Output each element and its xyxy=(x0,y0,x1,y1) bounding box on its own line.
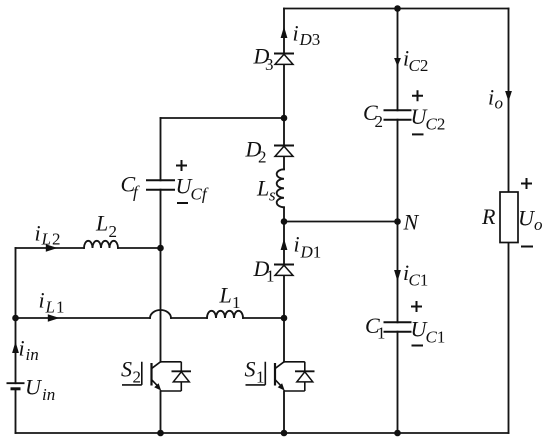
svg-text:i: i xyxy=(294,232,300,257)
svg-text:C1: C1 xyxy=(409,271,429,290)
svg-text:1: 1 xyxy=(266,267,275,286)
svg-text:L2: L2 xyxy=(41,230,61,249)
svg-text:2: 2 xyxy=(258,148,267,167)
svg-text:i: i xyxy=(488,85,494,110)
svg-text:o: o xyxy=(534,215,543,234)
svg-text:C2: C2 xyxy=(426,115,446,134)
svg-text:S: S xyxy=(121,357,132,382)
svg-text:in: in xyxy=(42,385,55,404)
svg-text:L: L xyxy=(256,176,269,201)
svg-text:S: S xyxy=(245,357,256,382)
svg-text:3: 3 xyxy=(265,55,274,74)
svg-text:D1: D1 xyxy=(300,243,322,262)
svg-text:2: 2 xyxy=(109,222,118,241)
svg-text:1: 1 xyxy=(377,324,386,343)
svg-text:L: L xyxy=(95,211,108,236)
svg-text:U: U xyxy=(25,375,43,400)
svg-text:i: i xyxy=(39,288,45,313)
svg-text:o: o xyxy=(495,94,504,113)
svg-text:2: 2 xyxy=(133,368,142,387)
svg-text:i: i xyxy=(293,21,299,46)
svg-text:1: 1 xyxy=(256,368,265,387)
svg-text:i: i xyxy=(35,221,41,246)
svg-text:s: s xyxy=(269,186,276,205)
svg-text:2: 2 xyxy=(375,112,384,131)
svg-text:in: in xyxy=(26,345,39,364)
svg-text:1: 1 xyxy=(232,293,241,312)
svg-text:L1: L1 xyxy=(45,298,65,317)
svg-text:C2: C2 xyxy=(409,56,429,75)
svg-text:R: R xyxy=(481,204,496,229)
svg-text:Cf: Cf xyxy=(191,185,209,204)
svg-text:C1: C1 xyxy=(426,328,446,347)
svg-text:D3: D3 xyxy=(299,30,321,49)
svg-text:L: L xyxy=(219,283,232,308)
svg-text:i: i xyxy=(19,336,25,361)
svg-text:N: N xyxy=(403,210,420,235)
